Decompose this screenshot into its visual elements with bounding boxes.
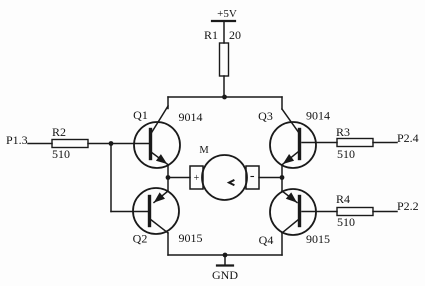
node A dot [166,175,171,180]
transistor Q3 [270,109,316,168]
motor left terminal box [190,166,203,189]
wire R4 to P2.2 [373,211,397,213]
transistor Q1 [134,106,180,168]
wire node A down to Q2 emitter [167,178,169,192]
wire Q2 collector to bottom bus [167,233,169,255]
+5V terminal bar [212,20,235,22]
svg-text:Q3: Q3 [258,109,273,123]
svg-text:510: 510 [337,147,355,161]
resistor R3 [337,139,373,147]
transistor Q4 [270,189,316,235]
svg-text:+5V: +5V [217,8,237,20]
junction dot bottom bus [223,253,228,258]
wire Q4 base to R4 [302,211,337,213]
wire R1 to top bus [223,76,225,97]
svg-text:Q1: Q1 [133,108,148,122]
motor minus mark [251,176,254,178]
wire junction down to Q2 base [110,144,112,212]
transistor Q2 [133,188,179,234]
junction node left [109,141,114,146]
wire motor to node B [259,177,282,179]
wire top bus [168,96,282,98]
svg-text:R4: R4 [336,192,350,206]
resistor R2 [52,140,88,148]
wire +5V to R1 [223,21,225,43]
svg-text:Q4: Q4 [259,233,274,247]
wire node B up to Q3 emitter [281,165,283,178]
svg-text:9014: 9014 [179,110,203,124]
svg-text:+: + [194,173,200,184]
resistor R4 [337,208,373,216]
wire Q3 base to R3 [302,142,337,144]
node B dot [280,175,285,180]
svg-text:9015: 9015 [306,232,330,246]
svg-text:9014: 9014 [306,109,330,123]
wire to Q2 base [111,211,148,213]
wire top bus left drop [167,97,169,109]
svg-text:R1: R1 [204,28,218,42]
wire bottom bus [168,254,282,256]
wire top bus right drop [281,97,283,109]
svg-text:Q2: Q2 [133,232,148,246]
svg-text:P2.4: P2.4 [397,131,419,145]
svg-text:510: 510 [52,147,70,161]
svg-text:9015: 9015 [179,231,203,245]
svg-text:R2: R2 [52,125,66,139]
wire P1.3 to R2 [28,143,52,145]
resistor R1 [220,43,229,76]
motor inner mark [229,180,234,185]
svg-text:M: M [199,145,209,156]
svg-text:510: 510 [337,215,355,229]
wire node B down to Q4 emitter [281,178,283,192]
junction dot top bus [222,95,227,100]
ground bar [217,264,233,266]
svg-text:P2.2: P2.2 [397,199,419,213]
svg-text:P1.3: P1.3 [6,133,28,147]
motor M [202,155,247,200]
wire Q4 collector to bottom bus [281,233,283,255]
wire R3 to P2.4 [373,142,397,144]
wire node A to motor [168,177,190,179]
motor right terminal box [246,166,259,189]
ground stem [224,255,226,265]
svg-text:20: 20 [229,28,241,42]
wire R2 to Q1 base [88,143,149,145]
svg-text:R3: R3 [336,125,350,139]
wire Q1 emitter to node A [167,165,169,178]
svg-text:GND: GND [212,268,238,282]
